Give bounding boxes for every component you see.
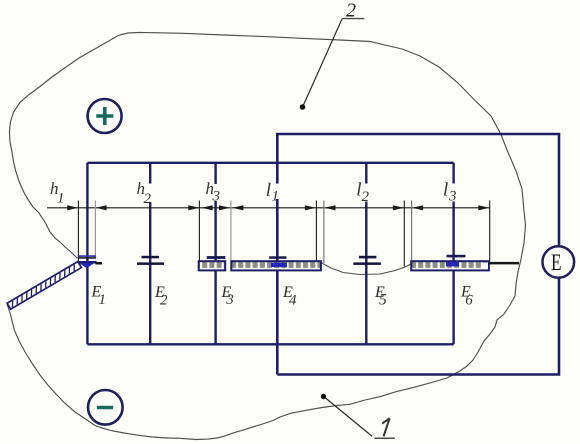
arrow h1 outside-left — [67, 205, 78, 210]
arrow l3 left — [412, 205, 423, 210]
svg-text:2: 2 — [346, 0, 356, 21]
wire E1 column (left edge) — [86, 163, 88, 344]
svg-text:4: 4 — [289, 293, 297, 309]
svg-text:6: 6 — [465, 292, 473, 308]
extension line h3 right (gray) — [230, 201, 232, 262]
electrode E1 upper plate — [79, 255, 97, 257]
right contact line to source — [489, 262, 520, 265]
svg-text:1: 1 — [99, 292, 107, 308]
crust strip B under E4 — [231, 261, 321, 270]
label 2 underline — [342, 18, 364, 20]
crust strip C under E6 — [411, 261, 489, 270]
diagonal hatched chute at E1 — [7, 262, 81, 310]
plus sign — [96, 107, 113, 125]
source circle E — [543, 246, 575, 278]
label 1 — [382, 418, 389, 436]
arrow h1 outside-right / h2 left — [96, 205, 107, 210]
electrode E4 plate — [269, 256, 286, 259]
wire E3 column — [214, 163, 216, 344]
arrow l2 right — [393, 205, 404, 210]
melt pool boundary dip under E5 — [321, 263, 412, 275]
arrow l2 left — [325, 205, 336, 210]
blue cell under E4 — [271, 263, 287, 268]
svg-text:1: 1 — [57, 191, 65, 207]
svg-text:l: l — [266, 180, 271, 201]
extension line l2 right — [403, 201, 405, 267]
electrode E2 cell bottom plate — [137, 262, 164, 265]
leader 1 dot — [321, 394, 326, 399]
svg-text:3: 3 — [448, 189, 457, 205]
plus terminal circle — [88, 99, 122, 133]
electrode E2 cell top plate — [142, 256, 160, 258]
extension line l3 right — [489, 201, 491, 262]
arrow l3 right — [478, 205, 489, 210]
electrode E6 plate — [447, 255, 466, 258]
extension line l3 left — [411, 201, 413, 263]
blue cell under E6 — [446, 262, 459, 267]
leader 1 line — [326, 398, 373, 436]
label 1 underline — [374, 437, 395, 439]
extension line l1 right — [315, 201, 317, 263]
svg-text:3: 3 — [225, 292, 234, 308]
electrode E1 right tick — [96, 262, 103, 265]
arrow l1 left — [232, 205, 243, 210]
electrode E5 cell bottom plate — [353, 262, 381, 265]
leader 2 line — [303, 19, 342, 107]
svg-text:2: 2 — [160, 292, 168, 308]
electrode E3 plate — [207, 256, 226, 259]
top bus wire — [87, 162, 453, 164]
electrode E5 cell top plate — [359, 256, 377, 259]
svg-text:2: 2 — [144, 191, 152, 207]
arrow h3 right — [219, 205, 230, 210]
label halo masks over wires — [143, 184, 153, 203]
extension line l2 left — [323, 201, 325, 264]
svg-text:3: 3 — [212, 189, 221, 205]
rectangle 1 (outer loop) with gap for source circle — [277, 134, 559, 375]
electrode E1 blue wedge — [80, 264, 94, 269]
svg-text:2: 2 — [362, 189, 370, 205]
minus sign — [97, 406, 113, 410]
crust strip A under E3 — [199, 261, 226, 270]
wire E5 column — [365, 163, 367, 344]
svg-text:5: 5 — [379, 291, 387, 308]
wire E2 column — [149, 163, 151, 344]
electrode E1 lower plate — [77, 261, 97, 264]
bottom bus wire — [87, 343, 453, 345]
svg-text:l: l — [443, 180, 448, 201]
arrow h2 right — [188, 205, 199, 210]
extension line h1 right (gray) — [94, 201, 96, 258]
minus terminal circle — [88, 390, 123, 425]
extension line h1 left — [77, 201, 79, 265]
svg-text:E: E — [551, 251, 562, 276]
extension line h3 left — [198, 201, 200, 262]
svg-text:1: 1 — [272, 189, 280, 205]
leader 2 dot — [300, 104, 306, 110]
dimension line — [47, 207, 490, 209]
wire E6 column — [452, 163, 454, 344]
arrow h3 left — [202, 205, 213, 210]
arrow l1 right — [305, 205, 316, 210]
